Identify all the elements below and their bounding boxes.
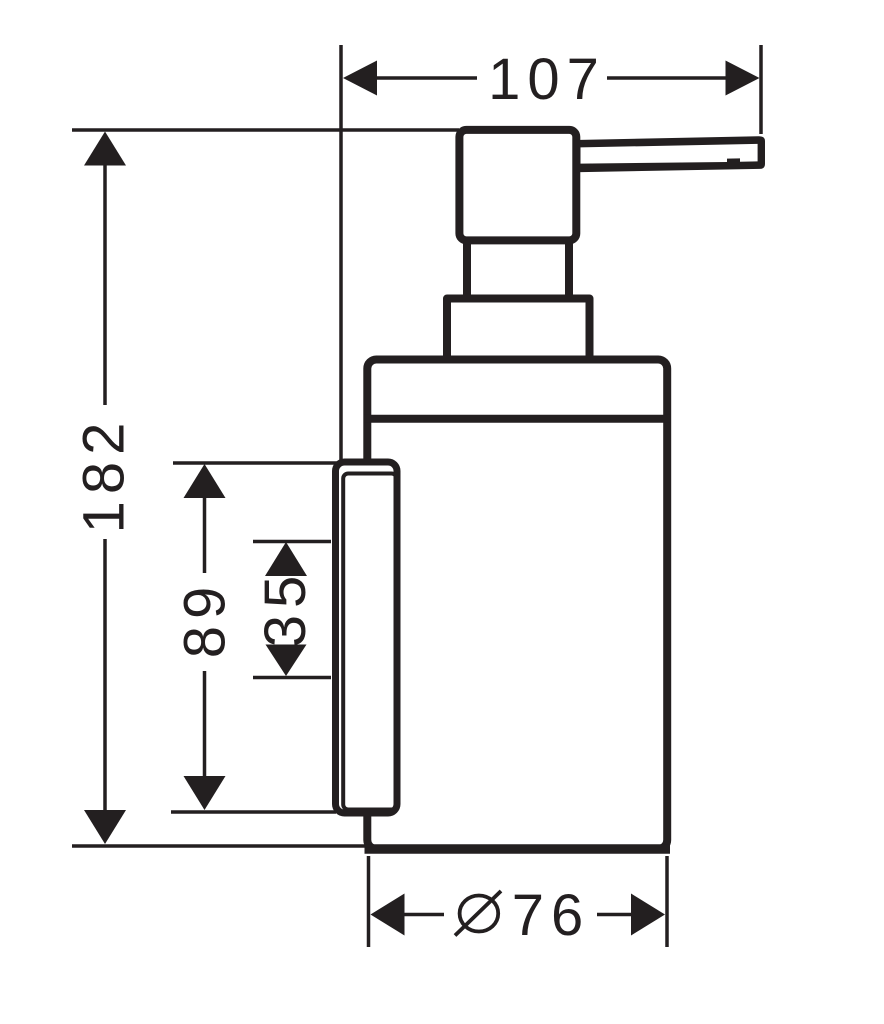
dia76 left arrow — [371, 894, 405, 936]
dia76 right arrow — [631, 894, 665, 936]
svg-text:35: 35 — [253, 569, 318, 648]
89 dimension line — [203, 496, 207, 573]
182 bottom extension — [72, 844, 372, 848]
diameter 76 dimension line — [403, 913, 444, 917]
107 right extension — [759, 45, 763, 134]
182 top extension — [72, 128, 459, 132]
89 bottom arrow — [184, 776, 226, 810]
neck left line — [463, 242, 471, 300]
body outline (bottle) — [367, 360, 667, 850]
89 bottom extension — [171, 810, 336, 814]
107 dimension line — [375, 76, 477, 80]
bottle bottom edge — [365, 844, 671, 854]
182 top arrow — [84, 132, 126, 166]
35 bottom arrow — [266, 645, 307, 677]
107 right arrow — [726, 61, 760, 96]
wall plate inner contour — [343, 474, 396, 810]
svg-text:89: 89 — [173, 580, 238, 659]
neck right line — [565, 242, 573, 300]
wall plate outer — [336, 462, 398, 813]
collar — [447, 299, 590, 363]
89 top extension — [173, 461, 340, 465]
lever (pump handle) — [575, 136, 765, 172]
diameter 76 right extension — [665, 856, 669, 947]
svg-text:76: 76 — [512, 883, 591, 948]
89 top arrow — [184, 464, 226, 498]
svg-text:107: 107 — [488, 47, 606, 112]
182 dimension line — [103, 164, 107, 405]
35 bottom extension — [253, 676, 331, 680]
diameter 76 left extension — [367, 856, 371, 947]
pump head — [459, 130, 576, 241]
shoulder divider line — [364, 415, 672, 423]
107 left arrow — [343, 61, 377, 96]
35 top extension — [253, 540, 331, 544]
35 top arrow — [265, 542, 307, 576]
svg-text:182: 182 — [72, 416, 137, 534]
wall line / 107 left extension — [339, 45, 343, 461]
182 bottom arrow — [84, 810, 126, 844]
diameter symbol — [455, 891, 501, 936]
